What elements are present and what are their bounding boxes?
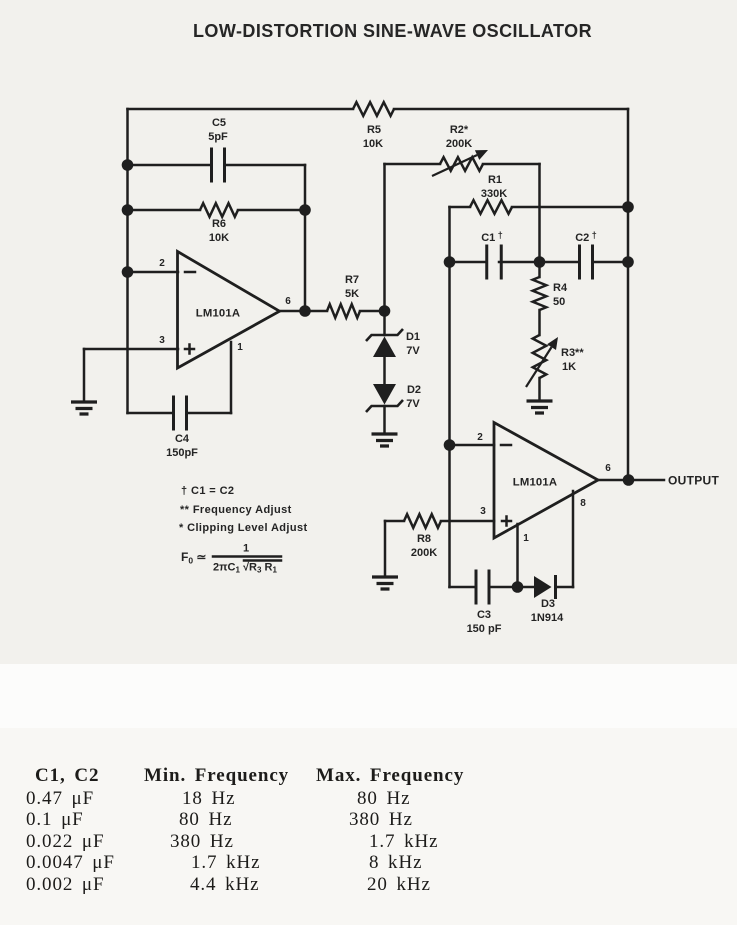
junction node C1 left — [444, 256, 456, 268]
wire R6 row right — [238, 209, 305, 212]
wire R2 branch vertical — [383, 164, 386, 311]
svg-text:7V: 7V — [406, 345, 420, 357]
table header row — [35, 766, 99, 785]
svg-text:2πC1 √R3 R1: 2πC1 √R3 R1 — [213, 562, 277, 575]
svg-text:1N914: 1N914 — [531, 612, 564, 624]
capacitor C5 — [212, 148, 225, 183]
wire C2 row right — [593, 261, 629, 264]
svg-text:2: 2 — [477, 432, 483, 443]
capacitor C4 — [174, 396, 187, 431]
wire top feedback rail — [128, 108, 629, 111]
zener diode D1 — [366, 329, 403, 341]
wire R8 right — [441, 520, 494, 523]
wire R4 top stub — [538, 262, 541, 277]
svg-text:7V: 7V — [406, 398, 420, 410]
resistor R7 — [327, 304, 360, 318]
ground D2 — [372, 434, 398, 446]
wire R2 row right — [483, 163, 540, 166]
table row 1 — [26, 789, 94, 808]
svg-text:R8: R8 — [417, 533, 431, 545]
svg-text:R7: R7 — [345, 274, 359, 286]
wire center vertical R2-C1 — [538, 164, 541, 262]
wire R4-R3 link — [538, 310, 541, 335]
capacitor C2 — [580, 245, 593, 280]
wire C4 row right — [187, 412, 232, 415]
wire D3 right — [556, 586, 574, 589]
ground R3 — [527, 401, 553, 413]
svg-text:8: 8 — [580, 498, 586, 509]
svg-text:150 pF: 150 pF — [467, 623, 502, 635]
wire D1 top stub — [383, 311, 386, 335]
wire R8 left corner — [385, 520, 404, 523]
junction node output — [623, 474, 635, 486]
op-amp U1 LM101A — [178, 252, 280, 369]
svg-text:D2: D2 — [407, 384, 421, 396]
wire R1 row right — [512, 206, 628, 209]
wire left rail — [126, 109, 129, 413]
U1 plus input symbol — [185, 345, 194, 354]
junction node C1 C2 center — [534, 256, 546, 268]
wire U2 pin2 — [450, 444, 495, 447]
table row 4 — [26, 853, 115, 872]
wire C1-C2 link — [499, 261, 580, 264]
svg-text:* Clipping Level Adjust: * Clipping Level Adjust — [179, 522, 308, 534]
capacitor C1 — [487, 245, 502, 280]
U2 minus input symbol — [501, 444, 511, 447]
wire U1 output — [281, 310, 327, 313]
svg-text:C1 †: C1 † — [481, 230, 503, 244]
wire loop right vertical — [304, 165, 307, 311]
wire U2 inverting net vertical — [448, 207, 451, 587]
wire C1 row left — [450, 261, 487, 264]
junction node R6 right — [299, 204, 311, 216]
wire D1-D2 link — [383, 357, 386, 384]
zener diode D2 — [373, 384, 396, 405]
svg-text:C3: C3 — [477, 609, 491, 621]
wire C3 right — [490, 586, 535, 589]
svg-text:10K: 10K — [363, 138, 383, 150]
wire U2 pin8 vertical — [572, 491, 575, 587]
wire U1 pin1 vertical — [230, 342, 233, 413]
op-amp U2 LM101A — [494, 423, 598, 539]
capacitor C3 — [476, 570, 489, 605]
wire right rail — [627, 109, 630, 479]
svg-text:LM101A: LM101A — [196, 308, 241, 320]
svg-text:R1: R1 — [488, 174, 502, 186]
wire C5 row right — [225, 164, 306, 167]
wire R8 ground stub — [384, 521, 387, 577]
resistor R4 — [533, 277, 547, 310]
junction node R1 right — [622, 201, 634, 213]
svg-text:10K: 10K — [209, 232, 229, 244]
junction node U1 output — [299, 305, 311, 317]
junction node R7 right — [379, 305, 391, 317]
wire R1 row left — [450, 206, 471, 209]
ground U1 pin3 — [71, 402, 97, 414]
junction node U2 pin2 — [444, 439, 456, 451]
junction node C2 right — [622, 256, 634, 268]
diode D3 1N914 — [534, 576, 552, 598]
wire C4 row left — [128, 412, 174, 415]
svg-text:50: 50 — [553, 296, 565, 308]
wire ground stub U1 pin3 — [83, 349, 86, 402]
svg-text:200K: 200K — [446, 138, 472, 150]
svg-text:R4: R4 — [553, 282, 568, 294]
svg-text:330K: 330K — [481, 188, 507, 200]
wire D2 ground stub — [383, 406, 386, 434]
svg-text:† C1 = C2: † C1 = C2 — [181, 485, 234, 497]
U1 minus input symbol — [185, 271, 195, 274]
resistor R1 — [470, 200, 512, 214]
svg-text:R3**: R3** — [561, 347, 584, 359]
junction node R6 left — [122, 204, 134, 216]
resistor R6 — [200, 203, 238, 217]
junction node C3 D3 — [512, 581, 524, 593]
svg-text:C2 †: C2 † — [575, 230, 597, 244]
svg-text:R2*: R2* — [450, 124, 469, 136]
svg-text:1: 1 — [523, 533, 529, 544]
svg-text:OUTPUT: OUTPUT — [668, 474, 719, 488]
wire C5 row left — [128, 164, 212, 167]
variable resistor R3 — [533, 335, 547, 378]
svg-text:R5: R5 — [367, 124, 381, 136]
wire U1 pin3 — [84, 348, 178, 351]
svg-text:C4: C4 — [175, 433, 190, 445]
resistor R8 — [404, 514, 441, 528]
svg-text:200K: 200K — [411, 547, 437, 559]
table row 5 — [26, 875, 104, 894]
wire U2 output — [598, 479, 664, 482]
svg-text:1: 1 — [237, 342, 243, 353]
svg-text:C5: C5 — [212, 117, 226, 129]
svg-text:2: 2 — [159, 258, 165, 269]
table row 3 — [26, 832, 104, 851]
svg-text:6: 6 — [285, 296, 291, 307]
resistor R5 — [353, 102, 394, 116]
wire R6 row left — [128, 209, 201, 212]
wire U2 pin1 vertical — [516, 524, 519, 587]
wire R7 right — [360, 310, 385, 313]
svg-text:5pF: 5pF — [208, 131, 228, 143]
svg-text:D1: D1 — [406, 331, 420, 343]
svg-text:LM101A: LM101A — [513, 477, 558, 489]
table row 2 — [26, 810, 84, 829]
wire C3 row left — [450, 586, 476, 589]
svg-text:D3: D3 — [541, 598, 555, 610]
svg-text:F0 ≃: F0 ≃ — [181, 550, 206, 566]
svg-text:R6: R6 — [212, 218, 226, 230]
svg-text:3: 3 — [159, 335, 165, 346]
ground R8 — [372, 577, 398, 589]
wire R3 ground stub — [538, 378, 541, 401]
wire R2 row left — [385, 163, 441, 166]
svg-text:1K: 1K — [562, 361, 576, 373]
wire U1 pin2 — [128, 271, 179, 274]
junction node U1 pin2 — [122, 266, 134, 278]
svg-text:** Frequency Adjust: ** Frequency Adjust — [180, 504, 292, 516]
U2 plus input symbol — [502, 517, 511, 526]
junction node C5 left — [122, 159, 134, 171]
svg-text:3: 3 — [480, 506, 486, 517]
variable resistor R2 — [440, 157, 483, 171]
svg-text:1: 1 — [243, 543, 249, 555]
svg-text:5K: 5K — [345, 288, 359, 300]
svg-text:150pF: 150pF — [166, 447, 198, 459]
svg-text:6: 6 — [605, 463, 611, 474]
title — [24, 22, 737, 40]
